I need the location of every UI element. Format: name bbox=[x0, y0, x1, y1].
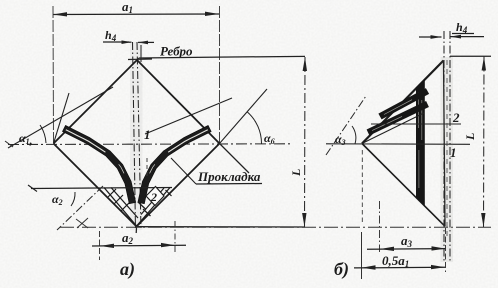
h4 dimension right segment bbox=[138, 41, 154, 43]
alpha2 arc bbox=[71, 192, 75, 206]
svg-text:Ребро: Ребро bbox=[160, 44, 193, 59]
h4 dimension left segment bbox=[129, 41, 132, 43]
0,5a1 arrows bbox=[362, 265, 446, 270]
h4 arrow right-pointing bbox=[122, 40, 132, 44]
dimension a1 arrows bbox=[53, 12, 219, 17]
inner gentle line right bbox=[145, 98, 232, 134]
a2 right extension bbox=[174, 221, 176, 252]
svg-text:2: 2 bbox=[452, 110, 460, 125]
apex bar bbox=[128, 58, 152, 61]
triangle bottom edge bbox=[362, 144, 445, 227]
ladder rungs left bbox=[108, 189, 130, 211]
gasket band right bbox=[138, 126, 211, 204]
svg-text:а): а) bbox=[120, 259, 135, 280]
diamond bottom-left edge bbox=[54, 144, 137, 227]
triangle right edge bbox=[444, 61, 446, 227]
groove horizontal line bbox=[31, 188, 172, 189]
level line 2 bbox=[371, 123, 461, 125]
alpha1 arc bbox=[40, 125, 46, 143]
tick below bottom apex bbox=[135, 226, 137, 233]
ladder rungs right bbox=[138, 190, 172, 216]
Rebro underline + extension to L line bbox=[139, 56, 305, 58]
horizontal centre line bbox=[8, 143, 291, 146]
alpha3 arc bbox=[352, 126, 356, 144]
V wall right bbox=[137, 188, 170, 227]
a2 left extension bbox=[99, 231, 101, 260]
L dimension line right view bbox=[483, 57, 486, 228]
alpha2 dash-dot diagonal bbox=[57, 186, 103, 230]
svg-text:Прокладка: Прокладка bbox=[197, 169, 261, 184]
L dimension line left view bbox=[304, 57, 307, 227]
L arrows left view bbox=[302, 57, 307, 227]
long dash-dot baseline bbox=[60, 226, 491, 228]
alpha6 construction line bbox=[220, 89, 268, 144]
a3 right extension bbox=[445, 228, 447, 272]
extension line left of a1 bbox=[52, 6, 55, 143]
h4 arrow left-pointing bbox=[138, 41, 148, 45]
V inner parallel right bbox=[141, 188, 164, 215]
V inner parallel left bbox=[111, 188, 138, 219]
diamond top-right edge bbox=[137, 60, 220, 144]
svg-text:L: L bbox=[463, 133, 477, 141]
dimension a1 line bbox=[53, 13, 219, 16]
alpha1 construction line bbox=[8, 87, 113, 148]
vertex drop dash line bbox=[361, 150, 363, 223]
centre dash line B bbox=[449, 31, 451, 262]
alpha3 dash-dot line bbox=[326, 96, 366, 155]
centre dash line C bbox=[446, 60, 448, 240]
gasket band left bbox=[63, 126, 136, 204]
alpha1 steep line bbox=[54, 93, 70, 144]
tick at groove line left end bbox=[28, 185, 37, 192]
0,5a1 left extension bbox=[361, 232, 363, 279]
rib edge short bbox=[140, 45, 142, 62]
level line 1 / centre bbox=[326, 143, 470, 146]
svg-text:L: L bbox=[289, 169, 303, 177]
h4 right dim left segment bbox=[419, 36, 442, 38]
thin line from vertex parallel to bands bbox=[362, 113, 424, 144]
Prokladka underline bbox=[196, 183, 262, 186]
vertical rib band bbox=[416, 79, 425, 206]
a2 arrows bbox=[100, 243, 175, 248]
svg-text:1: 1 bbox=[144, 127, 151, 142]
Rebro leader bbox=[137, 58, 140, 61]
svg-text:2: 2 bbox=[150, 190, 157, 204]
h4 right dim right segment bbox=[450, 36, 484, 38]
svg-text:б): б) bbox=[334, 259, 349, 280]
rib centerline left bbox=[133, 42, 136, 230]
box around label 2 bbox=[146, 187, 164, 206]
short dash line right of centre bbox=[146, 158, 148, 178]
h4 underline bbox=[103, 41, 129, 43]
0,5a1 dimension line bbox=[354, 266, 445, 269]
top extension right view bbox=[450, 55, 491, 57]
smudge around centre dash lines right view bbox=[441, 57, 454, 262]
tick at centre line left end bbox=[5, 141, 13, 147]
alpha6 arc bbox=[247, 112, 261, 144]
diamond top-left edge bbox=[54, 60, 138, 144]
a3 arrows bbox=[380, 246, 446, 251]
diamond bottom-right edge bbox=[137, 144, 220, 227]
a2 dimension line bbox=[92, 244, 186, 247]
Prokladka leader bbox=[171, 158, 196, 184]
extension line right of a1 bbox=[219, 6, 221, 143]
diagonal band upper bbox=[378, 88, 429, 119]
h4 right arrow left-pointing bbox=[450, 35, 461, 39]
h4 right underline bbox=[452, 33, 474, 35]
baseline from bottom apex bbox=[137, 226, 306, 228]
a3 left extension bbox=[379, 201, 381, 252]
smudge around rib centerlines left view bbox=[130, 42, 143, 230]
a3 dimension line bbox=[367, 248, 446, 251]
triangle hypotenuse bbox=[362, 61, 444, 144]
V wall left bbox=[104, 188, 137, 227]
cross mark lower left bbox=[76, 219, 88, 228]
L arrows right view bbox=[481, 57, 486, 228]
h4 right arrow right-pointing bbox=[431, 35, 442, 39]
diagonal band lower bbox=[367, 101, 429, 136]
rib centerline right bbox=[137, 42, 141, 230]
edge extension beyond right vertex bbox=[220, 144, 250, 174]
centre dash line A bbox=[443, 31, 445, 262]
